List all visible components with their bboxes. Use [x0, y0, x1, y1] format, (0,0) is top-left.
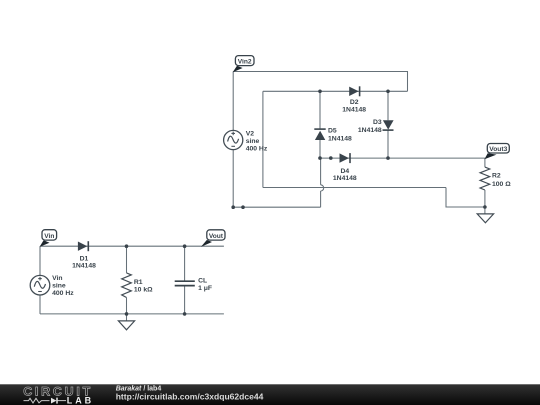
svg-text:D5: D5 — [328, 127, 337, 134]
junction R1 top / Vout net — [125, 244, 129, 248]
node Vout3 flag — [484, 153, 496, 159]
wire Vin2 top vertical to V2 — [232, 72, 234, 131]
wire CL bottom lead — [184, 286, 186, 314]
ground symbol top circuit — [477, 214, 493, 223]
junction CL top / Vout net — [183, 244, 187, 248]
svg-text:100 Ω: 100 Ω — [492, 181, 511, 188]
wire inner box left edge — [262, 91, 264, 187]
svg-text:D1: D1 — [80, 255, 89, 262]
junction D4 anode wire end — [329, 156, 333, 160]
svg-text:D4: D4 — [340, 168, 349, 175]
node Vin2 label box — [235, 56, 254, 66]
node Vin label box — [42, 230, 57, 240]
svg-text:400 Hz: 400 Hz — [52, 290, 74, 297]
wire riser lower segment — [320, 191, 322, 207]
source Vin circle — [30, 275, 50, 295]
svg-text:1N4148: 1N4148 — [328, 135, 352, 142]
wire D4 row horizontal — [320, 157, 485, 159]
capacitor CL plates — [175, 281, 195, 285]
wire D5 branch upper — [319, 91, 321, 129]
resistor R2 zigzag — [480, 167, 490, 190]
diode D5 — [314, 129, 325, 140]
resistor R1 labels — [134, 279, 153, 294]
svg-text:D2: D2 — [350, 99, 359, 106]
diode D2 labels — [342, 99, 366, 113]
junction D3 bottom / D4 row — [386, 156, 390, 160]
wire riser upper segment — [320, 158, 322, 185]
svg-text:LAB: LAB — [67, 396, 94, 405]
node Vout flag — [201, 240, 212, 247]
svg-text:V2: V2 — [246, 131, 255, 138]
source V2 circle — [224, 130, 243, 149]
wire V2 bottom horizontal — [233, 206, 320, 208]
svg-text:sine: sine — [52, 283, 66, 290]
wire Vin source top lead — [39, 246, 41, 275]
ground symbol bottom circuit — [118, 321, 134, 330]
junction R1 bottom / ground rail — [125, 312, 129, 316]
junction R2 bottom / ground node — [483, 205, 487, 209]
svg-text:sine: sine — [246, 138, 260, 145]
wire CL top lead — [184, 246, 186, 280]
wire D2 row horizontal — [263, 90, 408, 92]
wire middle horizontal to jog — [263, 187, 446, 189]
wire top horizontal Vin2 net — [233, 72, 407, 92]
diode D5 labels — [328, 127, 352, 142]
svg-text:Vin: Vin — [52, 275, 62, 282]
wire bottom circuit bottom rail — [40, 313, 224, 315]
svg-text:Vout: Vout — [209, 233, 224, 240]
wire R1 top lead — [126, 246, 128, 273]
diode D1 — [78, 241, 88, 251]
svg-text:R1: R1 — [134, 279, 143, 286]
svg-text:CL: CL — [198, 277, 207, 284]
wire R2 bottom lead — [484, 190, 486, 207]
wire jog down and right to ground node — [446, 188, 485, 208]
diode D4 — [340, 153, 351, 163]
junction CL bottom / ground rail — [183, 312, 187, 316]
wire D5 branch lower — [319, 140, 321, 158]
junction D5 bottom / D4 anode / V2 return — [318, 156, 322, 160]
svg-text:1N4148: 1N4148 — [358, 127, 382, 134]
junction V2 bottom wire end — [241, 205, 245, 209]
logo waveform — [24, 398, 67, 404]
capacitor CL labels — [198, 277, 212, 291]
diode D2 — [349, 86, 359, 96]
diode D3 labels — [358, 119, 382, 134]
ground stem top circuit — [484, 207, 486, 214]
resistor R2 labels — [492, 173, 511, 188]
node Vin flag — [40, 240, 50, 247]
node Vin2 flag — [233, 66, 243, 73]
diode D1 labels — [72, 255, 96, 269]
svg-text:400 Hz: 400 Hz — [246, 146, 268, 153]
svg-text:1N4148: 1N4148 — [333, 175, 357, 182]
wire hop over middle wire — [321, 185, 324, 191]
svg-text:D3: D3 — [373, 119, 382, 126]
diode D3 — [383, 120, 394, 130]
svg-text:1N4148: 1N4148 — [342, 106, 366, 113]
svg-text:Vin: Vin — [44, 233, 54, 240]
source Vin labels — [52, 275, 74, 297]
svg-text:10 kΩ: 10 kΩ — [134, 287, 153, 294]
node Vout label box — [207, 230, 225, 240]
svg-text:http://circuitlab.com/c3xdqu62: http://circuitlab.com/c3xdqu62dce44 — [116, 392, 264, 402]
node Vout3 label box — [487, 144, 509, 154]
svg-text:Vout3: Vout3 — [489, 146, 507, 153]
junction D3 top / D2 cathode net — [386, 90, 390, 94]
diode D4 labels — [333, 168, 357, 182]
junction V2 minus corner — [231, 205, 235, 209]
wire D3 branch lower — [387, 130, 389, 158]
wire D3 branch upper — [387, 91, 389, 120]
wire R1 bottom lead — [126, 298, 128, 314]
svg-text:Vin2: Vin2 — [238, 58, 252, 65]
wire R2 top lead — [484, 158, 486, 167]
svg-text:1N4148: 1N4148 — [72, 263, 96, 270]
wire bottom circuit top rail — [40, 245, 224, 247]
svg-text:1 μF: 1 μF — [198, 285, 212, 292]
ground stem bottom circuit — [126, 314, 128, 321]
junction D5 top / D2 anode net — [318, 90, 322, 94]
svg-text:R2: R2 — [492, 173, 501, 180]
wire Vin source bottom lead — [39, 295, 41, 314]
resistor R1 zigzag — [122, 273, 132, 298]
source V2 labels — [246, 131, 268, 153]
wire V2 bottom vertical — [232, 150, 234, 208]
